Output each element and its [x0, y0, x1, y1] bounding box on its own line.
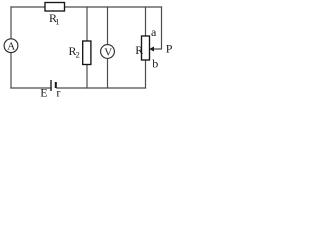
- label R2: [69, 44, 80, 60]
- wire top-left segment: [11, 6, 45, 8]
- resistor R1: [45, 3, 65, 12]
- svg-text:E: E: [40, 86, 47, 100]
- battery E short thick plate: [55, 82, 57, 88]
- wire voltmeter lower: [107, 58, 109, 88]
- slider P arrow: [149, 47, 154, 52]
- wire battery to R node: [57, 87, 146, 89]
- svg-text:a: a: [151, 25, 157, 39]
- wire top-right segment: [65, 6, 162, 8]
- rheostat R: [142, 36, 150, 60]
- svg-text:r: r: [56, 86, 60, 100]
- svg-text:P: P: [166, 42, 173, 56]
- wire left upper: [10, 7, 12, 39]
- label P: [166, 42, 173, 56]
- ammeter A: [4, 39, 18, 53]
- wire R2 branch upper: [86, 7, 88, 41]
- label E: [40, 86, 47, 100]
- svg-text:A: A: [7, 41, 15, 53]
- wire left lower: [10, 53, 12, 88]
- wire R2 branch lower: [86, 65, 88, 89]
- wire right side to slider: [154, 7, 162, 49]
- svg-text:V: V: [104, 46, 112, 58]
- voltmeter V: [101, 45, 115, 59]
- label R: [135, 43, 143, 57]
- wire rheostat upper: [145, 7, 147, 36]
- label r: [56, 86, 60, 100]
- battery E long plate: [50, 80, 52, 91]
- wire rheostat lower: [145, 60, 147, 88]
- wire bottom-left to battery: [11, 87, 51, 89]
- label R1: [49, 11, 60, 27]
- svg-text:2: 2: [76, 50, 80, 60]
- node b label: [152, 57, 158, 71]
- wire voltmeter upper: [107, 7, 109, 45]
- svg-text:b: b: [152, 57, 158, 71]
- node a label: [151, 25, 157, 39]
- svg-text:1: 1: [55, 17, 59, 27]
- resistor R2: [83, 41, 91, 65]
- svg-text:R: R: [135, 43, 143, 57]
